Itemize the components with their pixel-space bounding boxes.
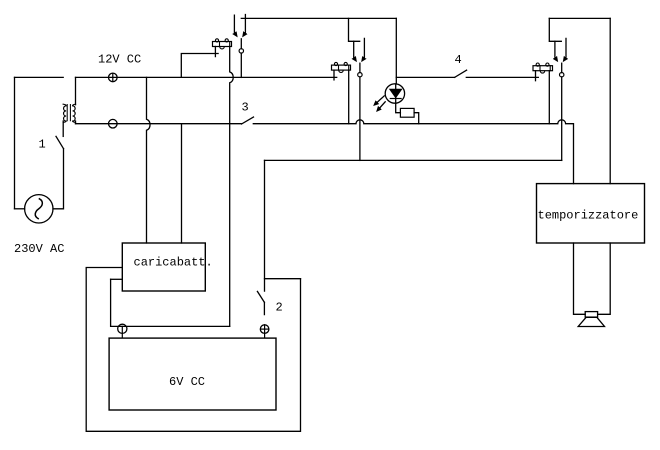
relay coil K2 body [332, 62, 351, 72]
contact K3 right arm with arrow [564, 38, 566, 60]
contact K1 right arm with arrow [244, 15, 246, 36]
label caricabatt. [134, 256, 213, 270]
wire: charger feed 2 from rail B [181, 124, 183, 243]
wire: AC source right to switch 1 [53, 149, 64, 209]
label 12V CC [98, 53, 141, 67]
wire: contact K2 stem to circle [359, 63, 361, 72]
timer box [537, 184, 645, 243]
resistor R1 [400, 108, 414, 117]
svg-text:temporizzatore: temporizzatore [538, 209, 639, 223]
wire: contact K3 down through rail B to y160 line [561, 77, 563, 160]
wire: rail B (0V) right segment with hops at x360 and x562 [253, 120, 573, 184]
switch 4 blade [455, 70, 467, 77]
label 230V AC [14, 242, 64, 256]
wire: switch 2 drop [264, 160, 266, 291]
wire: resistor to rail B [414, 113, 419, 124]
switch 1 blade [56, 136, 64, 148]
wire: rail A (+12V) from transformer to coil K2 lead [76, 76, 337, 78]
battery 6V box [109, 338, 276, 410]
svg-text:2: 2 [276, 301, 283, 315]
label 2 [276, 301, 283, 315]
wire: switch 4 right segment to coil K3 feed [466, 76, 538, 78]
terminal - on 0V rail [109, 119, 118, 128]
wire: primary loop left edge [14, 77, 16, 208]
relay coil K1 body [213, 39, 232, 49]
wire: contact K2 down through rail B to y160 line [359, 77, 361, 160]
transformer T1 core [67, 105, 70, 121]
wire: enclosure top right from switch2 to right edge [265, 278, 301, 280]
contact K3 left arm with arrow [555, 41, 557, 60]
svg-text:230V AC: 230V AC [14, 242, 64, 256]
transformer T1 primary winding [63, 104, 66, 122]
wire: secondary bottom lead [75, 121, 77, 124]
wire: coil K1 right lead down to battery minus wire, hop over rail A [230, 47, 234, 327]
label 3 [242, 101, 249, 115]
wire: secondary top lead [75, 77, 77, 104]
label 6V CC [169, 375, 205, 389]
contact K1 left arm with arrow [234, 15, 236, 35]
switch 2 blade [257, 291, 264, 302]
label 4 [455, 53, 462, 67]
contact K3 circle [560, 73, 564, 77]
battery plus terminal [260, 325, 269, 338]
wire: charger left output upper [111, 278, 123, 280]
wire: LED branch drop from top line [395, 18, 397, 84]
wire: coil K3 right lead to rail B [548, 71, 550, 124]
wire: top line from contact K1 to LED drop [241, 17, 396, 19]
svg-text:4: 4 [455, 53, 462, 67]
wire: charger feed 1 from rail A, hop over rail B [147, 77, 151, 243]
contact K2 right arm with arrow [363, 38, 365, 60]
LED D1 [385, 84, 404, 103]
svg-text:12V CC: 12V CC [98, 53, 141, 67]
label temporizzatore [538, 209, 639, 223]
wire: top line right segment [549, 17, 610, 19]
wire: timer to buzzer left [574, 243, 586, 314]
LED arrow 1 [375, 96, 384, 105]
wire: contact K1 stem to circle [240, 39, 242, 49]
relay coil K3 body [533, 63, 553, 73]
wire: rail B (0V) left segment to switch 3 [76, 123, 242, 125]
switch 3 blade [242, 117, 254, 124]
LED arrow 2 [378, 102, 386, 110]
wire: switch 1 to transformer primary [62, 121, 64, 136]
svg-text:caricabatt.: caricabatt. [134, 256, 213, 270]
wire: contact K3 elbow from top line [549, 18, 561, 41]
contact K2 circle [358, 73, 362, 77]
terminal + on 12V rail [109, 73, 118, 82]
wire: switch 4 line from LED drop [396, 76, 454, 78]
wire: switch 2 to battery plus terminal [263, 302, 265, 314]
wire: right drop from top line to timer [609, 18, 611, 183]
svg-text:3: 3 [242, 101, 249, 115]
wire: contact K1 to rail A [240, 53, 242, 77]
svg-text:6V CC: 6V CC [169, 375, 205, 389]
wire: coil K1 feed from rail A [181, 54, 218, 78]
label 1 [39, 138, 46, 152]
buzzer body [585, 312, 597, 318]
caricabatterie box [122, 243, 205, 291]
wire: contact K2 elbow from top line [349, 18, 360, 41]
transformer T1 secondary winding [73, 104, 76, 122]
enclosure wire loop [86, 268, 300, 432]
buzzer cone [578, 317, 604, 326]
wire: y160 link line from switch2 drop to contact K3 [265, 159, 562, 161]
contact K1 circle [239, 49, 243, 53]
wire: contact K3 stem to circle [561, 63, 563, 72]
wire: charger output down to battery minus [111, 279, 230, 326]
contact K2 left arm with arrow [354, 41, 356, 60]
wire: primary loop bottom to AC source [15, 208, 25, 210]
battery minus terminal [118, 324, 127, 338]
wire: coil K2 left lead crossing rail A [333, 70, 335, 80]
wire: coil K2 right lead to rail B [348, 70, 350, 124]
wire: LED cathode to resistor [396, 103, 401, 113]
wire: coil K3 left lead crossing switch4 line [535, 71, 537, 81]
AC source G1 [25, 195, 53, 223]
wire: coil K1 left lead [214, 47, 216, 57]
wire: primary loop top edge [15, 76, 64, 78]
wire: timer to buzzer right [598, 243, 611, 314]
svg-text:1: 1 [39, 138, 46, 152]
